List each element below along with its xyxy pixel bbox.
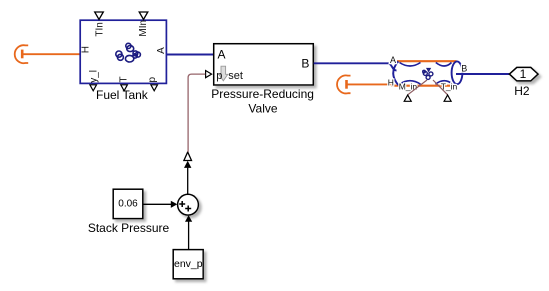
port TIn (Fuel Tank top, unconnected triangle) xyxy=(94,12,105,37)
svg-text:0.06: 0.06 xyxy=(118,199,138,210)
wire blue: pipe B to H2 port xyxy=(456,73,509,75)
svg-text:A: A xyxy=(156,47,167,54)
block Fuel Tank body xyxy=(80,20,166,83)
port T (Fuel Tank bottom) xyxy=(119,76,130,90)
port p (Fuel Tank bottom) xyxy=(147,77,158,91)
icon gas molecules (Fuel Tank) xyxy=(116,43,141,62)
svg-text:B: B xyxy=(461,64,467,74)
terminator T1 (orange open-circuit cap, Fuel Tank H port) xyxy=(15,45,28,63)
svg-text:T: T xyxy=(119,76,130,82)
signal arrow: env_p to sum xyxy=(185,215,192,249)
block env_p xyxy=(173,250,203,279)
svg-text:Stack Pressure: Stack Pressure xyxy=(88,221,170,235)
marker PS input (hollow triangle) xyxy=(184,152,192,161)
svg-text:Valve: Valve xyxy=(248,101,277,115)
wire p_set (maroon physical signal) sum area up to valve xyxy=(188,74,205,152)
terminator T2 (orange, pipe H port) xyxy=(337,75,350,93)
label Pressure-Reducing Valve xyxy=(211,87,314,115)
svg-text:set: set xyxy=(228,70,243,82)
svg-text:MIn: MIn xyxy=(138,20,149,37)
pipe left cap (blue arc) xyxy=(393,61,398,85)
svg-text:Pressure-Reducing: Pressure-Reducing xyxy=(211,87,314,101)
wire blue: Fuel Tank A to Valve A xyxy=(166,54,213,56)
block pipe cylinder: orange walls xyxy=(391,61,457,85)
block constant 0.06 xyxy=(113,189,143,218)
svg-text:H: H xyxy=(81,46,92,53)
svg-text:p: p xyxy=(147,77,158,83)
svg-text:H: H xyxy=(388,77,394,87)
block Pressure-Reducing Valve xyxy=(214,44,314,85)
svg-text:env_p: env_p xyxy=(174,258,203,270)
port H2 (connection port 1, hexagon) xyxy=(509,67,538,81)
svg-text:y_l: y_l xyxy=(89,70,100,83)
signal: sum up to PS converter (black with solid arrowhead) xyxy=(184,161,191,195)
icon chamber arcs inside pipe xyxy=(400,63,453,85)
port p_set (valve): input triangle + label with gray down-arrow xyxy=(206,66,243,82)
block sum (circle with plus signs) xyxy=(178,194,199,215)
svg-text:p: p xyxy=(216,70,222,82)
port y_l (Fuel Tank bottom) xyxy=(89,70,100,91)
svg-text:H2: H2 xyxy=(514,84,530,98)
svg-text:Fuel Tank: Fuel Tank xyxy=(96,88,149,102)
svg-text:1: 1 xyxy=(520,67,527,81)
svg-text:A: A xyxy=(390,55,396,65)
svg-text:B: B xyxy=(301,56,309,70)
wire blue: Valve B to pipe A (with S-curve) xyxy=(314,63,397,70)
pipe right cap (blue ellipse) xyxy=(452,61,463,84)
svg-text:A: A xyxy=(218,48,226,62)
wire H orange: terminator T1 to Fuel Tank xyxy=(23,53,80,55)
wire H orange: terminator T2 to pipe xyxy=(347,83,392,85)
port M_in (pipe bottom): label + stem + triangle xyxy=(399,80,427,101)
signal arrow: constant to sum xyxy=(143,201,177,208)
icon gas molecules (pipe) xyxy=(423,69,433,80)
port MIn (Fuel Tank top) xyxy=(138,12,149,37)
svg-text:TIn: TIn xyxy=(94,22,105,36)
port T_in (pipe bottom): label + stem + triangle xyxy=(433,80,458,101)
